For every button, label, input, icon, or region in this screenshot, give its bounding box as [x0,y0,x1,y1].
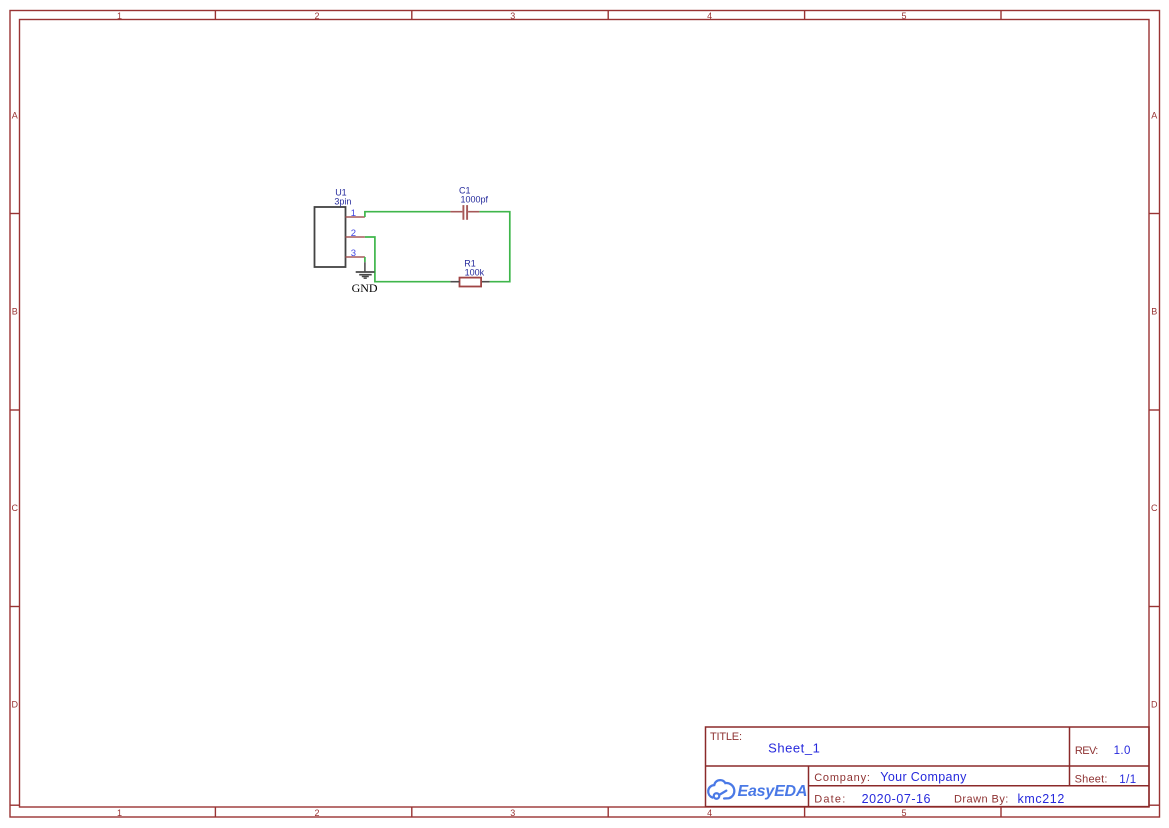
label C1 reference [459,186,471,196]
svg-text:4: 4 [707,808,712,818]
svg-text:A: A [12,111,18,121]
svg-text:Company:: Company: [814,772,871,784]
svg-text:A: A [1151,111,1157,121]
pin number 3 [351,248,356,259]
capacitor C1 [450,205,479,220]
pin number 1 [351,208,356,219]
svg-text:2: 2 [351,228,356,239]
svg-text:1/1: 1/1 [1119,774,1136,786]
svg-text:B: B [12,307,18,317]
svg-text:1.0: 1.0 [1114,745,1131,757]
svg-text:5: 5 [901,11,906,21]
net label GND [352,281,378,295]
label R1 reference [464,258,476,268]
svg-text:1: 1 [117,808,122,818]
svg-text:3: 3 [510,808,515,818]
svg-text:D: D [12,700,19,710]
svg-text:100k: 100k [465,267,485,277]
svg-text:1: 1 [351,208,356,219]
IC U1 body [315,207,346,267]
svg-text:1000pf: 1000pf [461,194,489,204]
label U1 reference [335,187,347,197]
wire C1 right to top-right corner [479,212,509,282]
svg-text:1: 1 [117,11,122,21]
svg-text:Sheet_1: Sheet_1 [768,741,820,756]
svg-text:TITLE:: TITLE: [710,731,742,743]
wire R1 left to pin2 riser [365,237,450,282]
svg-text:2: 2 [314,11,319,21]
svg-text:Date:: Date: [814,793,846,805]
label U1 value 3pin [334,197,351,207]
svg-text:Drawn By:: Drawn By: [954,793,1009,805]
svg-text:5: 5 [901,808,906,818]
svg-text:C: C [12,503,19,513]
label R1 value 100k [465,267,485,277]
svg-text:Sheet:: Sheet: [1075,774,1108,786]
resistor R1 [450,278,489,287]
pin 1 of U1 [346,216,365,218]
svg-text:Your Company: Your Company [880,770,967,784]
svg-text:4: 4 [707,11,712,21]
svg-text:C: C [1151,503,1158,513]
svg-text:kmc212: kmc212 [1018,792,1065,806]
svg-text:B: B [1151,307,1157,317]
svg-text:2: 2 [314,808,319,818]
ground symbol GND [356,262,375,278]
svg-text:3pin: 3pin [334,197,351,207]
svg-text:REV:: REV: [1075,745,1098,757]
wire pin3 to ground [364,257,366,262]
svg-text:GND: GND [352,281,378,295]
svg-text:3: 3 [351,248,356,259]
label C1 value 1000pf [461,194,489,204]
pin number 2 [351,228,356,239]
pin 2 of U1 [346,236,365,238]
svg-text:D: D [1151,700,1158,710]
wire pin1 to C1 left [365,212,451,217]
pin 3 of U1 [346,256,365,258]
svg-text:2020-07-16: 2020-07-16 [862,792,931,806]
svg-text:EasyEDA: EasyEDA [738,783,808,800]
EasyEDA logo cloud [708,780,734,799]
svg-text:3: 3 [510,11,515,21]
